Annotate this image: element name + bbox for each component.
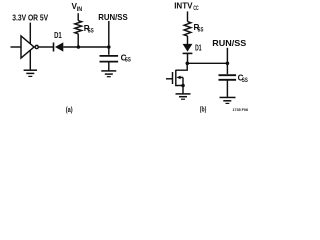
svg-text:IN: IN: [77, 7, 82, 13]
ground under cap (b): [220, 97, 236, 103]
svg-text:RUN/SS: RUN/SS: [98, 13, 128, 22]
wire INTVCC to resistor: [187, 11, 189, 21]
node dot source (b): [181, 84, 185, 88]
ground under cap (a): [101, 71, 116, 77]
svg-text:INTV: INTV: [174, 1, 193, 10]
wire bubble to diode: [39, 46, 54, 48]
label RSS (a): [84, 24, 94, 34]
wire VIN to resistor: [77, 13, 79, 20]
op-amp U1 buffer triangle: [21, 36, 34, 58]
wire supply drop to gate: [29, 23, 31, 44]
label CSS (b): [238, 74, 248, 84]
wire diode to node (b): [187, 53, 189, 63]
wire resistor to diode (b): [187, 36, 189, 44]
wire cap to ground (b): [226, 80, 228, 97]
svg-text:RUN/SS: RUN/SS: [212, 39, 247, 48]
svg-text:(b): (b): [200, 107, 207, 114]
wire RUN/SS drop (b): [226, 48, 228, 64]
ground under gate: [24, 70, 37, 76]
wire diode to RUN/SS node: [63, 46, 110, 48]
wire drain riser (b): [176, 63, 188, 70]
wire source to ground: [182, 86, 184, 94]
svg-text:1735 F06: 1735 F06: [233, 108, 249, 112]
node junction at RSS (a): [77, 45, 81, 49]
node bubble on gate output: [35, 45, 38, 48]
svg-text:SS: SS: [125, 58, 131, 64]
wire resistor to node: [77, 34, 79, 47]
svg-text:SS: SS: [88, 28, 94, 34]
ground under MOSFET: [176, 94, 191, 99]
wire RUN/SS drop (a): [108, 21, 110, 47]
wire gate input: [11, 46, 22, 48]
wire node to cap (a): [108, 47, 110, 55]
svg-text:SS: SS: [198, 27, 204, 33]
svg-text:D1: D1: [195, 42, 202, 52]
capacitor CSS (b): [219, 75, 237, 80]
wire cap to ground (a): [108, 62, 110, 71]
svg-text:(a): (a): [66, 107, 73, 114]
svg-text:SS: SS: [242, 78, 248, 84]
label RSS (b): [194, 23, 204, 33]
resistor RSS (a): [75, 21, 82, 34]
svg-text:3.3V OR 5V: 3.3V OR 5V: [12, 14, 48, 23]
wire gate to ground: [29, 50, 31, 70]
svg-text:D1: D1: [54, 30, 62, 40]
node dot at cap (b): [226, 62, 230, 66]
label CSS (a): [121, 54, 131, 64]
svg-text:CC: CC: [193, 6, 199, 12]
capacitor CSS (a): [100, 56, 119, 62]
wire node to cap (b): [226, 63, 228, 74]
label VIN: [72, 2, 83, 13]
wire main horizontal (b): [187, 62, 227, 64]
label INTVCC: [174, 1, 199, 12]
node dot at cap (a): [107, 45, 111, 49]
resistor RSS (b): [184, 22, 191, 36]
node dot main (b): [186, 62, 190, 66]
transistor Q1 NMOS: [166, 70, 183, 86]
diode D1 (b): [183, 44, 193, 54]
diode D1 (a): [54, 42, 64, 51]
